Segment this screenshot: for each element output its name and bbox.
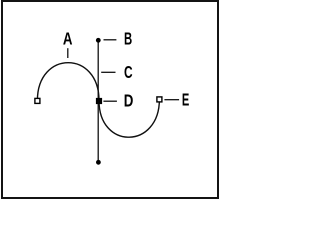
svg-text:A: A [63,29,73,49]
leader tick for label E [164,99,179,101]
direction point B (top dot) [96,38,101,43]
anchor point start (left hollow square) [35,98,40,103]
direction point (bottom dot) [96,160,101,165]
svg-text:D: D [124,90,134,110]
svg-text:C: C [124,62,133,82]
svg-text:B: B [124,29,132,49]
leader tick for label C [101,71,115,73]
curve segment hump (path A) [37,63,99,101]
anchor point E (right hollow square) [157,97,162,102]
curve segment dip [99,99,159,137]
anchor point D (filled square) [96,98,102,104]
direction line C (vertical handle) [97,40,99,162]
leader tick for label B [104,39,117,41]
leader tick for label D [103,100,117,102]
leader tick for label A [67,48,69,58]
svg-text:E: E [182,89,189,109]
